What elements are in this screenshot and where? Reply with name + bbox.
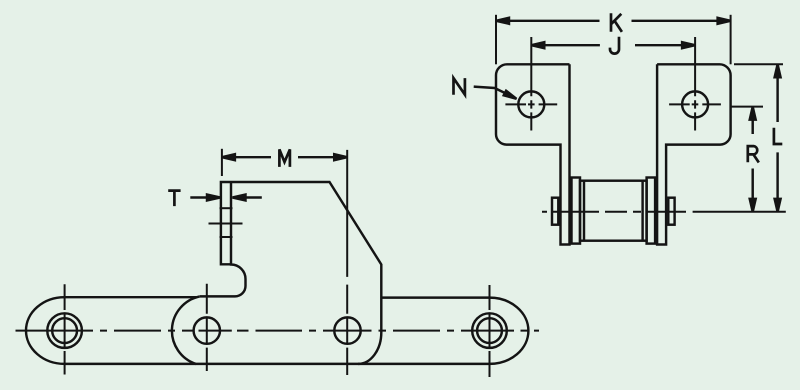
hole left horizontal centerline (505, 103, 557, 105)
node roller1 centerline vertical (64, 284, 66, 374)
extension line bottom right (693, 211, 786, 213)
dimension M left extension (221, 149, 223, 176)
dimension K line (496, 20, 731, 22)
dimension K left extension (495, 15, 497, 65)
label J (610, 37, 619, 54)
leader N line (474, 87, 508, 95)
dimension K left arrow (496, 18, 509, 24)
roller R1 outer (47, 313, 82, 348)
dimension R extension at hole level (732, 106, 764, 108)
inner link plate right (647, 178, 656, 244)
dimension R line (751, 107, 753, 211)
pin end left (552, 198, 558, 225)
hole N right (682, 91, 708, 117)
attachment tab right edge and foot (200, 182, 246, 296)
dimension L bottom arrow (775, 199, 781, 212)
dimension M line (222, 156, 347, 158)
label T (168, 191, 180, 207)
tab break tick lower (220, 236, 233, 238)
tab break tick upper (220, 207, 233, 209)
dimension J left arrow (531, 42, 544, 48)
dimension K right arrow (718, 18, 731, 24)
roller face line left (583, 181, 585, 241)
dimension M left arrow (222, 154, 235, 160)
attachment plate outline (172, 182, 381, 364)
dimension J line (531, 44, 695, 46)
leader N arrowhead (504, 91, 517, 99)
roller R4 outer (472, 313, 507, 348)
label K (611, 13, 622, 32)
link plate right inner link (358, 298, 528, 364)
hole left vertical centerline / J extension (530, 37, 532, 131)
dimension J right arrow (682, 42, 695, 48)
hole N left (518, 91, 544, 117)
dimension M right arrow (334, 154, 347, 160)
pin end right (668, 198, 674, 225)
label N (454, 78, 465, 95)
dimension L line (776, 65, 778, 211)
hole right horizontal centerline (669, 103, 721, 105)
label L (774, 128, 782, 144)
dimension K right extension (730, 15, 732, 65)
roller R1 inner (52, 318, 77, 343)
dimension R top arrow (750, 107, 756, 120)
roller barrel (580, 181, 647, 241)
node pin3 centerline vertical / M extension (346, 150, 348, 375)
inner link plate left (572, 178, 581, 244)
roller face line right (641, 181, 643, 241)
node roller4 centerline vertical (489, 285, 491, 377)
wire chain centerline right view (542, 211, 686, 213)
attachment left tab plate (496, 64, 570, 244)
label R (748, 146, 759, 162)
wire chain centerline left view (16, 330, 540, 332)
dimension R bottom arrow (750, 199, 756, 212)
pin P3 (334, 317, 360, 343)
node pin2 centerline vertical (206, 284, 208, 371)
hole right vertical centerline / J extension (694, 37, 696, 131)
label M (279, 149, 290, 167)
roller R4 inner (477, 318, 502, 343)
dimension T right arrow (245, 196, 262, 198)
tab bend centerline (209, 223, 243, 225)
dimension T left arrow (190, 196, 207, 198)
dimension L extension at tab top (734, 63, 783, 65)
dimension L top arrow (775, 64, 781, 77)
attachment right tab plate (657, 64, 731, 244)
link plate left inner link (26, 297, 196, 364)
pin P2 (194, 317, 220, 343)
